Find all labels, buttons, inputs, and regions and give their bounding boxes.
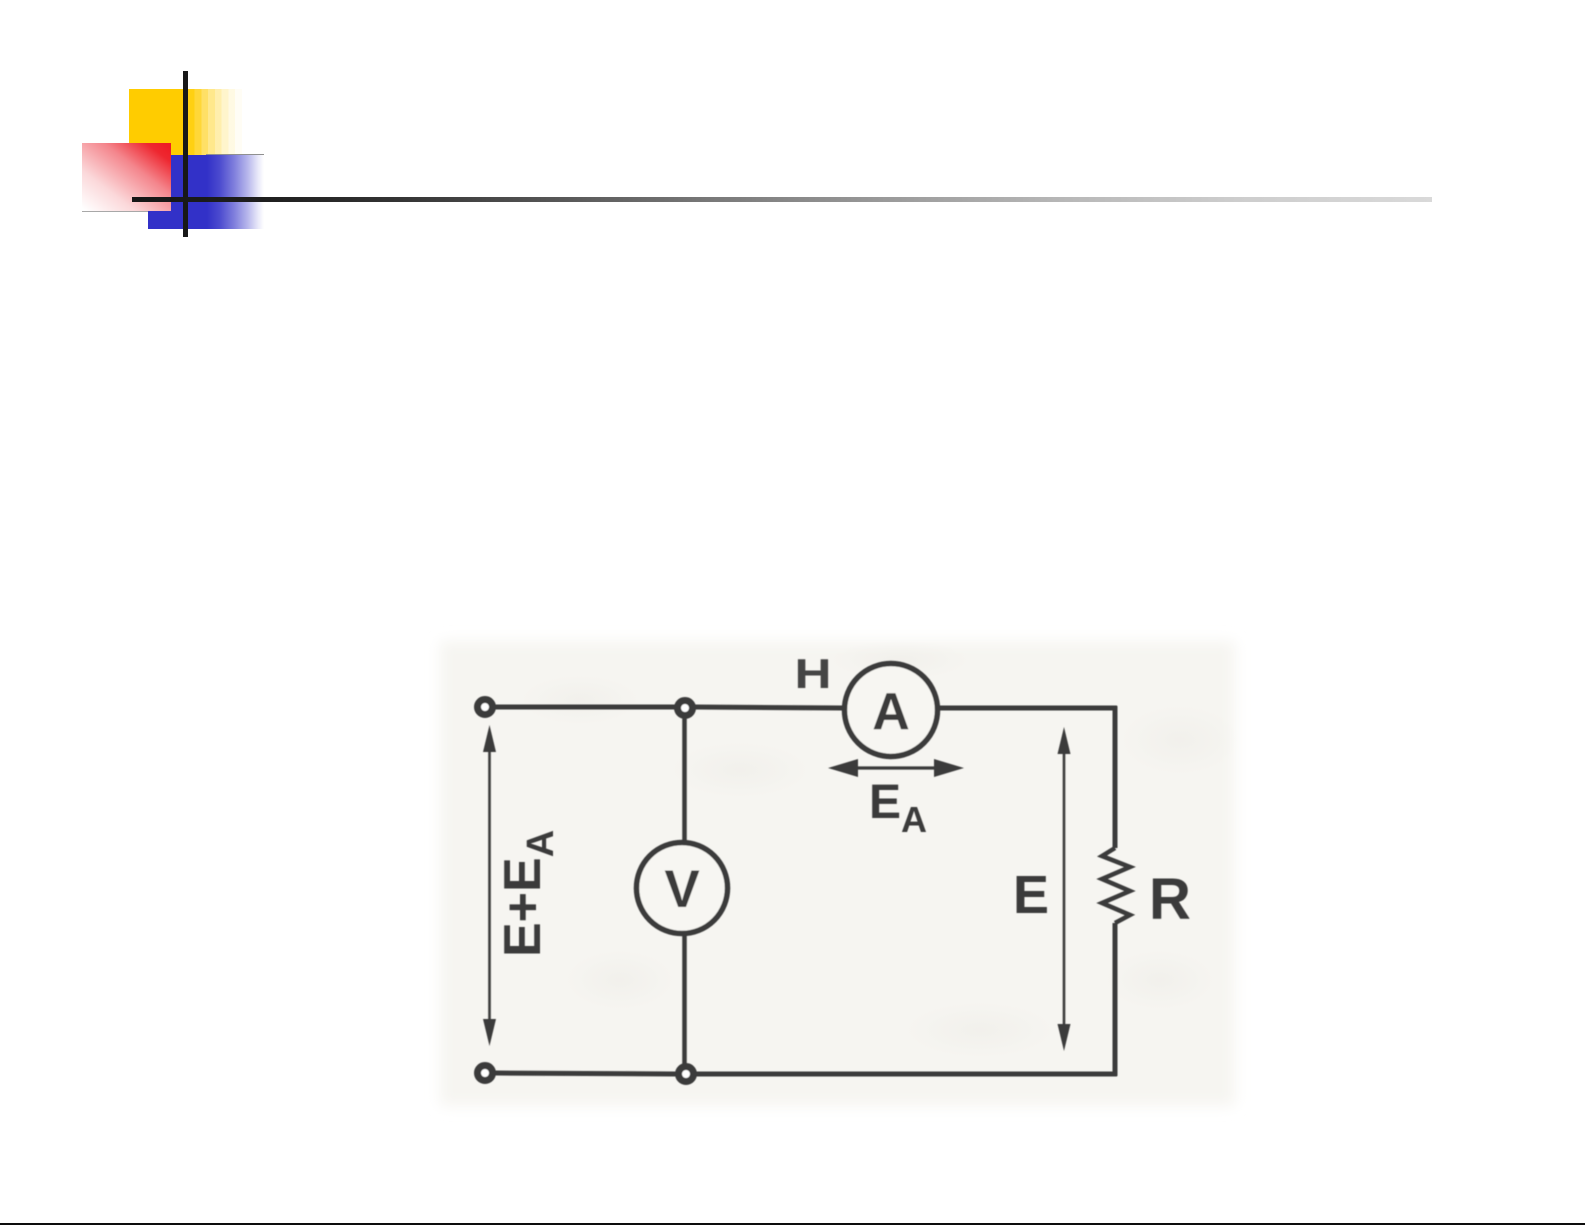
bottom edge black line [0,1223,1585,1225]
decorative: vertical black bar [183,71,188,237]
resistor R1 zigzag [1102,848,1130,923]
svg-text:V: V [664,860,699,919]
wire: voltmeter branch lower [682,934,687,1066]
wire: top left segment [494,705,676,710]
wire: bottom segment right [696,1072,1117,1077]
decorative: pink/red gradient square [82,143,171,211]
node: bottom middle terminal [679,1067,694,1082]
node: top-left terminal [478,700,493,715]
decorative corner logo: yellow square [129,89,188,155]
svg-text:R: R [1149,867,1191,932]
wire: right side lower [1113,923,1118,1076]
svg-text:E: E [1013,865,1049,925]
wire: voltmeter branch upper [682,716,687,843]
wire: top right segment [938,706,1117,711]
node: top middle terminal [678,701,693,716]
wire: right side upper [1113,706,1118,848]
dimension arrow E (right inner) [1063,744,1066,1034]
decorative: thin gray line under pink square [82,211,148,212]
ammeter A1 [845,664,938,757]
svg-text:A: A [872,683,910,741]
voltmeter V1 [637,843,728,934]
svg-text:H: H [795,650,832,697]
node: bottom-left terminal [478,1066,493,1081]
decorative: blue fade [207,155,264,229]
dimension arrow EA (under ammeter) [836,766,956,769]
decorative: thin gray line at top of blue fade [206,154,264,156]
wire: bottom segment left [495,1073,676,1074]
decorative: yellow fade stripes [188,89,242,155]
decorative: blue square [148,155,207,229]
dimension arrow E+EA (left) [488,742,491,1032]
wire: top middle segment to ammeter [694,707,844,708]
decorative: horizontal gradient rule [132,197,1432,203]
